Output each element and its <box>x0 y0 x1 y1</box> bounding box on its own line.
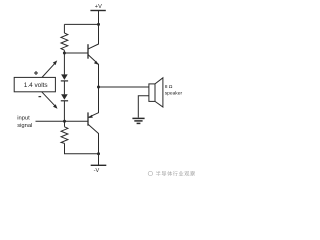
transistor Q1 emitter arrow <box>94 61 98 65</box>
wire speaker bottom <box>138 96 149 118</box>
diode D2 cathode bar <box>61 100 68 102</box>
svg-text:+V: +V <box>95 4 102 10</box>
wire R1 bottom lead <box>63 50 65 53</box>
wire R2 bottom lead <box>65 143 99 153</box>
-V supply rail bar <box>91 164 107 166</box>
watermark logo circle <box>148 171 152 175</box>
svg-text:signal: signal <box>17 123 32 129</box>
label minus sign <box>39 96 42 97</box>
resistor R2 <box>61 127 68 144</box>
node junction dot R2/collector <box>97 152 100 155</box>
label plus sign <box>34 71 38 75</box>
svg-text:input: input <box>17 116 30 122</box>
ground bar 2 <box>134 120 142 122</box>
arrow to diode bottom <box>42 92 56 106</box>
transistor Q2 collector <box>88 124 98 165</box>
speaker driver rectangle <box>149 84 155 102</box>
wire +V bar to top junction <box>98 11 100 25</box>
wire diode chain bottom <box>63 101 65 122</box>
arrow to diode top <box>42 63 55 77</box>
wire speaker top <box>99 86 149 88</box>
arrowhead lower <box>53 104 58 109</box>
node junction dot input/D2/R2 <box>63 120 66 123</box>
node junction dot speaker/emitters <box>97 86 100 89</box>
ground bar 3 <box>137 122 141 124</box>
ground bar 1 <box>132 117 144 119</box>
wire input signal <box>36 120 88 122</box>
transistor Q1 base bar <box>87 44 89 59</box>
diode D1 cathode bar <box>61 80 68 82</box>
arrowhead upper <box>53 60 57 65</box>
transistor Q2 emitter <box>88 87 98 117</box>
wire diode chain top <box>63 53 65 74</box>
svg-text:1.4 volts: 1.4 volts <box>24 82 48 89</box>
transistor Q2 base bar <box>87 112 89 125</box>
diode D2 <box>61 94 68 100</box>
wire Q1 base <box>64 52 87 54</box>
wire R2 top lead <box>64 121 66 127</box>
+V supply rail bar <box>90 10 105 12</box>
diode D1 <box>61 74 68 80</box>
transistor Q1 emitter <box>88 55 98 87</box>
transistor Q2 emitter arrow <box>89 115 93 118</box>
node junction dot R1/D1/Q1-base <box>63 52 66 55</box>
wire top horizontal (junction to R1 top) <box>64 23 98 25</box>
1.4 volts callout box <box>14 77 55 91</box>
wire between diodes <box>63 81 65 94</box>
transistor Q1 collector <box>88 24 98 49</box>
svg-text:speaker: speaker <box>165 90 183 96</box>
speaker horn <box>155 78 163 107</box>
wire R1 top lead <box>63 24 65 33</box>
svg-text:-V: -V <box>94 168 100 174</box>
node junction dot top <box>97 23 100 26</box>
svg-text:8 Ω: 8 Ω <box>165 84 173 90</box>
resistor R1 <box>61 33 68 50</box>
svg-text:半导体行业观察: 半导体行业观察 <box>156 170 196 178</box>
